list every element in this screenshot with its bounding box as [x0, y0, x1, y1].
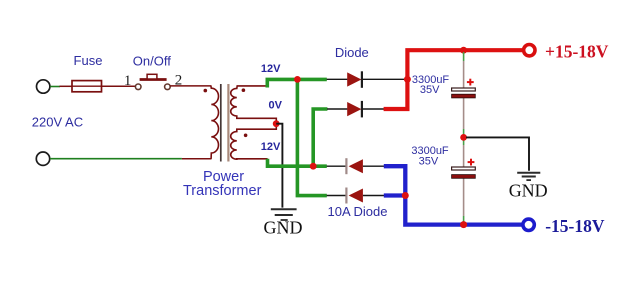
ground symbol (transformer center tap) [271, 209, 297, 220]
wire (green vertical from D3 row up to D2 row) [313, 109, 327, 166]
junction dot (D1 to red bus) [404, 76, 411, 83]
junction dot (D4 to blue bus) [402, 192, 409, 199]
svg-text:On/Off: On/Off [133, 54, 171, 69]
wire (D4 to blue bus stub) [384, 193, 406, 197]
secondary upper polarity dot [242, 88, 246, 92]
diode D2 [347, 101, 362, 118]
transformer core line right [227, 84, 229, 162]
wire (green net: top tap to D1 and down) [267, 79, 327, 87]
svg-text:GND: GND [509, 181, 548, 201]
diode D3 [346, 158, 363, 174]
diode D4 anode wire [363, 195, 384, 197]
diode D4 cathode wire [327, 195, 346, 197]
wire (red positive bus) [384, 50, 522, 109]
secondary lower polarity dot [244, 134, 248, 138]
input terminal J2 (220V AC neutral) [36, 152, 49, 165]
transformer T1 secondary winding lower [231, 126, 277, 159]
junction dot (bottom tap node) [310, 163, 317, 170]
C1 plus sign [467, 79, 474, 86]
input terminal J1 (220V AC live) [37, 80, 50, 93]
wire (mid rail to right ground, black) [466, 137, 529, 170]
diode D1 anode wire [327, 78, 348, 80]
wire (green net: bottom tap to D3 row) [268, 159, 327, 166]
fuse F1 [72, 81, 102, 92]
svg-text:35V: 35V [420, 84, 440, 96]
diode D1 cathode wire [363, 78, 407, 80]
output terminal +15-18V [524, 45, 535, 56]
output terminal -15-18V [523, 219, 534, 230]
node 0V junction dot [273, 120, 280, 127]
junction dot (mid rail / ground node) [460, 134, 467, 141]
svg-text:0V: 0V [268, 99, 282, 111]
wire (fuse to switch pin 1) [102, 85, 136, 87]
svg-text:GND: GND [264, 218, 303, 238]
C2 plus sign [468, 159, 475, 166]
wire (blue negative bus) [384, 166, 522, 224]
wire (0V to ground, black) [276, 124, 282, 208]
junction dot (blue bus at capacitor rail) [460, 221, 467, 228]
svg-text:Fuse: Fuse [74, 53, 103, 68]
transformer T1 primary winding [211, 86, 219, 159]
svg-text:220V AC: 220V AC [32, 115, 83, 130]
svg-text:12V: 12V [261, 63, 281, 75]
capacitor C2 3300uF 35V [452, 167, 476, 178]
diode D2 anode wire [327, 108, 347, 110]
wire (capacitor rail segments) [463, 52, 465, 223]
diode D2 cathode wire [363, 108, 384, 110]
wire (lead to fuse) [60, 85, 73, 87]
transformer T1 secondary winding upper [231, 86, 277, 122]
diode D3 anode wire [363, 165, 384, 167]
diode D1 [347, 71, 362, 88]
ground symbol (output common) [517, 173, 540, 180]
junction dot (red bus at capacitor rail) [460, 47, 467, 54]
junction dot (12V top node) [294, 76, 301, 83]
capacitor C1 3300uF 35V [452, 88, 476, 98]
wire (switch pin 2 to transformer primary) [170, 85, 211, 87]
svg-text:1: 1 [124, 73, 132, 89]
diode D4 [346, 188, 363, 204]
switch S1 On/Off [135, 74, 170, 89]
wire (green bottom input) [50, 158, 182, 160]
svg-text:35V: 35V [419, 156, 439, 168]
svg-text:10A Diode: 10A Diode [328, 204, 388, 219]
diode D3 cathode wire [327, 165, 346, 167]
svg-text:12V: 12V [261, 141, 281, 153]
svg-text:-15-18V: -15-18V [545, 216, 605, 236]
wire (green vertical from 12V node to D4 row) [297, 79, 326, 195]
wire (lead to transformer primary bottom) [182, 158, 212, 160]
svg-text:Diode: Diode [335, 45, 369, 60]
wire (green stub J1 to fuse lead) [50, 86, 60, 88]
transformer core line left [220, 84, 222, 162]
svg-text:+15-18V: +15-18V [545, 41, 609, 61]
transformer primary polarity dot [204, 89, 208, 93]
svg-text:Transformer: Transformer [183, 183, 262, 199]
